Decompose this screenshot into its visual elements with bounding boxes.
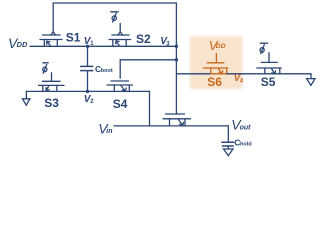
ground left — [23, 99, 31, 105]
wire corner down to ground right — [310, 74, 312, 79]
transistor S3 — [39, 81, 65, 91]
transistor S2 — [109, 32, 131, 47]
capacitor Chold — [222, 126, 234, 149]
label VDD orange — [209, 38, 226, 53]
svg-text:in: in — [106, 128, 112, 135]
wire S4 drain down to Vin net — [149, 91, 151, 126]
transistor S1 — [40, 32, 62, 47]
wire S2 gate stub — [119, 24, 121, 32]
ground right — [307, 79, 315, 86]
svg-text:2: 2 — [90, 99, 94, 105]
label VDD left — [8, 35, 28, 51]
wire VDD rail through S1 and S2 to V3 — [30, 45, 176, 47]
transistor S6 — [203, 63, 228, 74]
svg-text:out: out — [240, 124, 252, 131]
phi-bar label for S2 — [111, 12, 119, 22]
svg-text:hold: hold — [240, 141, 252, 147]
wire S5 gate stub — [268, 53, 270, 63]
svg-text:boot: boot — [101, 68, 113, 74]
transistor M main switch — [163, 114, 191, 126]
label V4 — [234, 73, 244, 85]
transistor S5 — [257, 62, 281, 73]
label V3 — [160, 36, 170, 48]
label Cboot — [95, 64, 113, 74]
transistor S4 — [107, 81, 133, 91]
highlight box around S6 — [190, 36, 243, 89]
wire S4 gate up and right to V3 line — [120, 60, 176, 78]
wire top rail — [53, 2, 176, 4]
wire ground to S3 to V2 to S4 rail — [26, 90, 149, 92]
wire S6 to S5 and to right ground (node V4) — [227, 73, 311, 75]
svg-text:S5: S5 — [261, 75, 276, 89]
wire S6 gate stub — [215, 54, 217, 63]
svg-text:S4: S4 — [113, 97, 128, 111]
svg-text:DD: DD — [17, 40, 28, 49]
phi-bar label for S3 — [43, 63, 49, 74]
svg-text:S2: S2 — [136, 32, 151, 46]
svg-text:S1: S1 — [66, 31, 81, 45]
phi-bar label for S5 — [260, 43, 268, 54]
wire corner down to ground left — [25, 91, 27, 98]
wire top-left drop to S1 gate — [52, 3, 54, 32]
svg-text:DD: DD — [216, 43, 226, 50]
ground bottom — [224, 149, 234, 156]
capacitor Cboot — [81, 46, 93, 91]
label Vin — [98, 121, 112, 137]
svg-text:4: 4 — [240, 78, 244, 84]
wire right vertical V3 line down to main gate — [175, 3, 177, 114]
svg-text:S3: S3 — [44, 96, 59, 110]
node V1 junction dot — [86, 45, 89, 48]
wire S3 gate stub — [51, 73, 53, 82]
label V1 — [84, 36, 94, 47]
node V2 junction dot — [86, 90, 89, 93]
wire Vin to Vout rail — [114, 125, 228, 127]
label V2 — [84, 94, 94, 105]
junction dot S4 gate wire — [175, 58, 178, 61]
label Chold — [234, 138, 251, 148]
svg-text:S6: S6 — [207, 75, 222, 89]
node V3 junction dot — [175, 45, 178, 48]
label Vout — [231, 117, 251, 133]
wire V3 line to S6 — [176, 73, 210, 75]
